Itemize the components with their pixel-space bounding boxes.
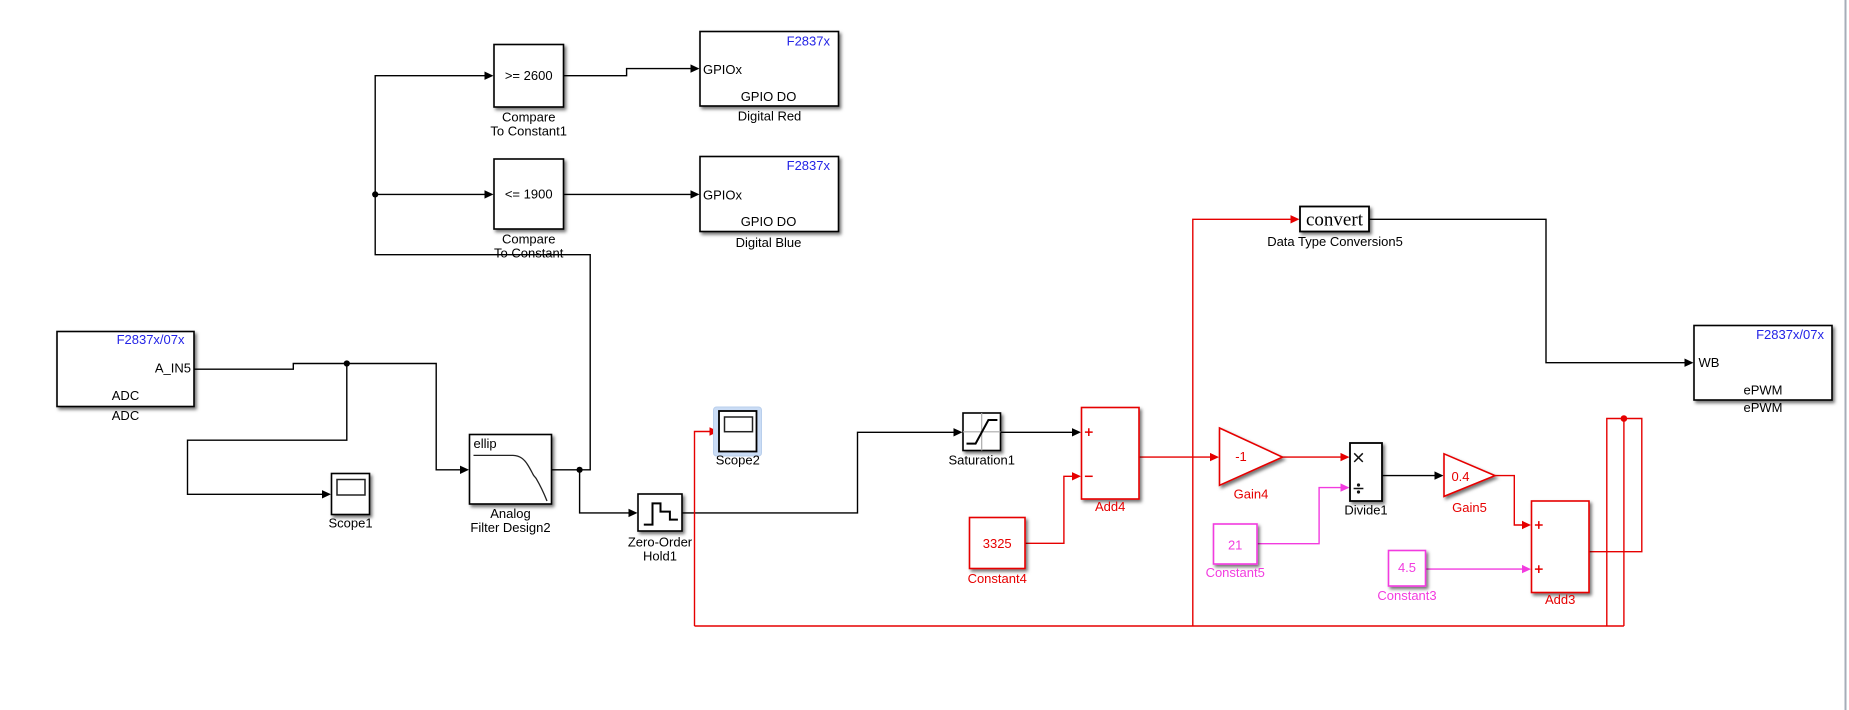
svg-text:Compare: Compare [502, 232, 555, 247]
svg-text:Compare: Compare [502, 110, 555, 125]
wire Saturation1 to Add4 plus [1001, 431, 1073, 433]
svg-text:3325: 3325 [983, 536, 1012, 551]
node junction feedback (red) [1621, 415, 1628, 422]
svg-text:ePWM: ePWM [1744, 400, 1783, 415]
block Constant5 [1206, 524, 1265, 580]
svg-text:GPIO DO: GPIO DO [741, 214, 797, 229]
svg-text:convert: convert [1306, 210, 1364, 231]
svg-text:Data Type Conversion5: Data Type Conversion5 [1267, 234, 1403, 249]
svg-text:Zero-Order: Zero-Order [628, 535, 693, 550]
wire Compare To Constant1 to GPIO Digital Red [564, 69, 692, 76]
wire feedback bottom horizontal (red) [695, 625, 1624, 627]
wire Zero-Order Hold1 to Saturation1 [682, 432, 954, 513]
svg-text:Scope2: Scope2 [716, 453, 760, 468]
svg-text:<= 1900: <= 1900 [505, 187, 553, 202]
block Data Type Conversion5 [1267, 207, 1403, 250]
svg-text:Gain4: Gain4 [1234, 487, 1269, 502]
svg-text:WB: WB [1699, 355, 1720, 370]
svg-text:Constant5: Constant5 [1206, 565, 1265, 580]
svg-text:-1: -1 [1235, 449, 1247, 464]
svg-text:Saturation1: Saturation1 [948, 453, 1015, 468]
svg-text:Analog: Analog [490, 506, 530, 521]
svg-text:ADC: ADC [112, 408, 139, 423]
svg-text:ellip: ellip [474, 436, 497, 451]
svg-text:21: 21 [1228, 537, 1242, 552]
block Gain4 [1220, 428, 1283, 502]
svg-text:ePWM: ePWM [1744, 383, 1783, 398]
svg-text:0.4: 0.4 [1451, 469, 1469, 484]
block Scope2 [716, 411, 760, 468]
svg-text:A_IN5: A_IN5 [155, 361, 191, 376]
block Compare To Constant [494, 159, 564, 261]
wire branch to Compare To Constant [375, 193, 485, 195]
svg-text:ADC: ADC [112, 388, 139, 403]
block ADC [57, 332, 194, 424]
svg-text:F2837x: F2837x [787, 33, 831, 48]
block GPIO DO Digital Red [700, 32, 839, 124]
svg-text:Digital Blue: Digital Blue [736, 235, 802, 250]
svg-text:F2837x/07x: F2837x/07x [1756, 327, 1824, 342]
wire filter output up to Compare To Constant1 [375, 76, 590, 470]
svg-text:Scope1: Scope1 [328, 516, 372, 531]
wire feedback vertical branch (red) [1623, 419, 1625, 627]
svg-text:To Constant: To Constant [494, 246, 564, 261]
svg-text:>= 2600: >= 2600 [505, 68, 553, 83]
svg-text:To Constant1: To Constant1 [490, 124, 567, 139]
wire Gain4 to Divide1 (red) [1283, 456, 1342, 458]
wire Gain5 to Add3 (red) [1495, 476, 1523, 525]
canvas right edge [1845, 0, 1847, 710]
wire feedback up to convert (red) [1193, 219, 1291, 626]
svg-text:GPIOx: GPIOx [703, 62, 743, 77]
block Add4 [1082, 408, 1140, 515]
wire Divide1 to Gain5 [1382, 475, 1435, 477]
svg-text:Filter Design2: Filter Design2 [470, 520, 550, 535]
block Saturation1 [948, 413, 1015, 468]
svg-text:Constant4: Constant4 [968, 571, 1027, 586]
svg-text:GPIO DO: GPIO DO [741, 89, 797, 104]
block ePWM [1694, 326, 1832, 416]
wire branch to Scope1 [188, 364, 347, 495]
svg-text:Divide1: Divide1 [1344, 503, 1387, 518]
block Scope1 [328, 474, 372, 531]
node junction compare branch [372, 191, 378, 197]
svg-text:GPIOx: GPIOx [703, 188, 743, 203]
block Divide1 [1344, 443, 1387, 518]
svg-text:Digital Red: Digital Red [738, 108, 802, 123]
wire Constant4 to Add4 minus (red) [1025, 476, 1073, 543]
svg-text:F2837x/07x: F2837x/07x [117, 332, 185, 347]
wire convert to ePWM [1369, 219, 1685, 362]
wire feedback to Scope2 (red) [695, 432, 711, 627]
wire Add4 to Gain4 (red) [1139, 456, 1211, 458]
wire Add3 feedback loop (red) [1589, 419, 1642, 627]
wire ADC to Analog Filter Design2 [194, 364, 461, 470]
node junction filter output [577, 467, 583, 473]
svg-text:Add4: Add4 [1095, 499, 1125, 514]
block Constant4 [968, 518, 1027, 587]
svg-text:Add3: Add3 [1545, 592, 1575, 607]
svg-text:Hold1: Hold1 [643, 549, 677, 564]
block Zero-Order Hold1 [628, 494, 693, 564]
block Analog Filter Design2 [470, 435, 552, 536]
wire branch to Zero-Order Hold1 [580, 470, 629, 513]
svg-text:Gain5: Gain5 [1452, 500, 1487, 515]
block Scope2 selection halo [714, 407, 762, 456]
svg-text:4.5: 4.5 [1398, 560, 1416, 575]
block Add3 [1532, 501, 1590, 607]
node junction ADC output branch [344, 360, 350, 366]
wire Compare To Constant to GPIO Digital Blue [564, 193, 692, 195]
block Constant3 [1377, 551, 1436, 604]
wire Constant3 to Add3 (magenta) [1426, 568, 1523, 570]
svg-text:Constant3: Constant3 [1377, 588, 1436, 603]
wire Constant5 to Divide1 (magenta) [1257, 488, 1341, 544]
block GPIO DO Digital Blue [700, 157, 839, 251]
block Gain5 [1444, 454, 1495, 515]
block Compare To Constant1 [490, 45, 567, 139]
svg-text:F2837x: F2837x [787, 158, 831, 173]
